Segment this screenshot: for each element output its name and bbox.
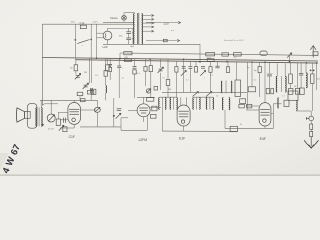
- resistor R5 right end: [313, 52, 318, 55]
- wire: tube2 cathode loop: [143, 117, 145, 122]
- wire: lower return left: [80, 126, 121, 128]
- jack circle: [309, 116, 314, 121]
- IF transformer T3 windings: [192, 98, 195, 110]
- coil L4: [276, 76, 277, 92]
- tube L2FM mixer: [137, 104, 150, 117]
- output transformer T6: [36, 108, 37, 127]
- resistor R1: [124, 52, 132, 55]
- trimmer C8: [160, 59, 162, 68]
- wire: main bus lower: [75, 60, 318, 63]
- capacitor C13: [217, 62, 219, 66]
- speaker: [16, 108, 24, 122]
- junction dot: [113, 115, 115, 117]
- capacitor C22 right: [300, 63, 302, 73]
- speaker frame: [27, 104, 37, 129]
- potentiometer P3: [146, 89, 150, 93]
- svg-text:L2F: L2F: [103, 45, 108, 49]
- capacitor C26b: [271, 89, 274, 94]
- resistor R2b on bus: [207, 59, 214, 62]
- wire: rectifier anode line: [108, 27, 134, 29]
- resistor R7b: [145, 59, 147, 67]
- svg-text:0,5 50: 0,5 50: [48, 129, 54, 131]
- resistor R30: [299, 88, 304, 94]
- coil L8: [278, 98, 279, 108]
- trimmer C12b: [201, 66, 205, 68]
- trimmer C10: [182, 66, 186, 68]
- resistor R15: [240, 99, 246, 104]
- tube E1F IF amp: [177, 105, 190, 126]
- trimmer C3: [75, 71, 77, 75]
- resistor R17: [87, 90, 93, 94]
- coil L2 oscillator: [220, 81, 223, 93]
- frame: coil box right: [288, 91, 298, 100]
- switch S1 mains double-pole: [74, 24, 76, 39]
- capacitor C17: [62, 118, 64, 123]
- wire: B+ drop to rail: [199, 44, 201, 62]
- svg-text:220: 220: [164, 21, 169, 25]
- resistor R20: [147, 98, 154, 102]
- coil L6: [306, 73, 307, 88]
- diode/detector mark: [287, 53, 292, 58]
- resistor R8: [104, 71, 107, 77]
- wire: B+ line under rectifier: [107, 40, 109, 44]
- ground arrow symbol (aerial down): [310, 137, 312, 146]
- resistor R10a: [109, 67, 112, 71]
- capacitor C19 +: [117, 108, 121, 110]
- resistor boxes vertical pair: [310, 121, 312, 124]
- svg-text:Netz: Netz: [71, 21, 76, 24]
- resistor R12: [167, 59, 169, 79]
- resistor R23: [239, 104, 244, 108]
- resistor R29: [311, 74, 314, 84]
- wire: tube2 left/right: [128, 109, 137, 111]
- wire: right column to pickup: [312, 84, 314, 111]
- diode D1: [109, 58, 111, 64]
- tube E4F demod: [259, 103, 271, 126]
- svg-text:C1F: C1F: [69, 135, 75, 139]
- transformer T1 secondary: [142, 14, 143, 45]
- resistor R11 feeds tube2: [150, 59, 152, 66]
- resistor R7: [92, 89, 96, 94]
- resistor R3: [222, 53, 229, 56]
- svg-text:E1F: E1F: [179, 136, 185, 140]
- resistor R12b: [210, 62, 212, 67]
- node: junction heater: [96, 24, 98, 58]
- resistor R16 above tube1: [77, 92, 83, 95]
- connector lug: [163, 39, 167, 42]
- resistor R25: [248, 87, 255, 92]
- capacitor C1 filter +: [126, 31, 131, 33]
- svg-text:Skala: Skala: [110, 16, 118, 20]
- resistor R6: [75, 58, 77, 65]
- wire: to output tube: [40, 100, 42, 107]
- wire: can top connections: [160, 96, 177, 98]
- resistor R11c: [195, 62, 197, 67]
- resistor R9: [106, 58, 108, 65]
- capacitor C6: [134, 59, 136, 67]
- trimmer on T4: [206, 92, 212, 97]
- IF transformer T5 windings: [222, 98, 223, 110]
- wire: tube4 connections: [246, 105, 259, 107]
- transformer T1 core: [136, 13, 138, 45]
- IF transformer T4 windings: [205, 98, 208, 110]
- fuse F1: [80, 25, 86, 28]
- resistor R11b: [154, 86, 158, 90]
- wire: heater line to lamp: [103, 21, 135, 23]
- capacitor C21 +: [269, 62, 271, 73]
- resistor R14 loop: [235, 80, 241, 97]
- resistor R24: [247, 104, 252, 108]
- resistor R13: [227, 62, 229, 67]
- transformer T1 power primary: [133, 14, 134, 45]
- speaker voice coil box: [25, 112, 31, 119]
- svg-text:220V: 220V: [93, 22, 99, 24]
- trimmer on T3: [193, 92, 199, 97]
- svg-text:Ersatzteil-Nr. w. 4567: Ersatzteil-Nr. w. 4567: [224, 39, 244, 42]
- wire: main bus upper: [42, 58, 318, 62]
- wire: cap leads: [128, 28, 130, 31]
- choke L1: [260, 51, 267, 56]
- wire: output lead 2 with arrow: [146, 40, 178, 42]
- wire: tube3 connections: [183, 59, 185, 92]
- IF transformer T2 left windings: [158, 98, 161, 110]
- potentiometer P1: [47, 114, 55, 122]
- capacitor C14: [91, 58, 93, 83]
- rectifier tube L2F: [103, 31, 112, 40]
- resistor R4: [234, 53, 242, 56]
- wire: top-left mains horizontal: [42, 23, 134, 25]
- wire: tube1 connections: [73, 100, 75, 102]
- tube C1F output: [68, 103, 81, 125]
- coil L5: [285, 76, 286, 92]
- coil L3 oscillator: [230, 81, 233, 93]
- capacitor C5b: [118, 59, 120, 66]
- wire: right of cans: [247, 62, 249, 109]
- wire to jack: [296, 110, 311, 112]
- resistor R27b: [289, 89, 293, 95]
- resistor R19 small: [63, 127, 67, 132]
- resistor R25b: [259, 62, 261, 66]
- wire: tube2 top: [143, 97, 145, 104]
- capacitor C20 +: [152, 106, 157, 111]
- resistor R26: [266, 89, 269, 94]
- svg-text:2M: 2M: [84, 72, 87, 74]
- trimmer C4: [88, 58, 90, 83]
- resistor R21: [150, 114, 156, 118]
- resistor R22 bottom: [230, 126, 237, 131]
- resistor R31: [284, 100, 289, 106]
- resistor R27: [289, 74, 293, 84]
- capacitor C15 top bars: [89, 88, 91, 93]
- svg-text:L2FM: L2FM: [139, 138, 148, 142]
- resistor R16b on line: [81, 99, 86, 102]
- potentiometer P2 volume: [94, 108, 100, 113]
- svg-text:E4F: E4F: [260, 137, 266, 141]
- capacitor C2 filter +: [126, 37, 131, 39]
- capacitor C11: [189, 61, 191, 66]
- phono input TA arrow 1: [146, 22, 155, 24]
- svg-text:1W: 1W: [168, 89, 171, 91]
- IF transformer T2 right windings: [169, 98, 172, 110]
- wire: output lead with arrow (field): [146, 22, 179, 24]
- resistor R1b on bus: [125, 59, 132, 62]
- resistor R2: [206, 53, 215, 56]
- resistor R6b: [133, 70, 136, 74]
- coil L9 small: [105, 86, 108, 94]
- capacitor C9 row below bus: [175, 61, 177, 66]
- resistor R28: [295, 88, 299, 94]
- node dots pair: [310, 70, 312, 72]
- wire: upper supply rail: [120, 53, 318, 55]
- wire: verticals below bus right section: [251, 62, 253, 87]
- lamp: dial lamp Skala: [122, 15, 127, 20]
- node dots on bus: [96, 57, 98, 59]
- coil L7: [296, 100, 297, 110]
- svg-text:0,1A: 0,1A: [80, 22, 85, 25]
- resistor R18: [56, 119, 60, 125]
- wire: left edge vertical rail: [41, 24, 43, 105]
- wire: switch to bus: [74, 42, 76, 58]
- antenna symbol: [312, 46, 314, 58]
- trimmer C18: [116, 113, 121, 118]
- transformer T1 taps with arrows: [142, 15, 152, 17]
